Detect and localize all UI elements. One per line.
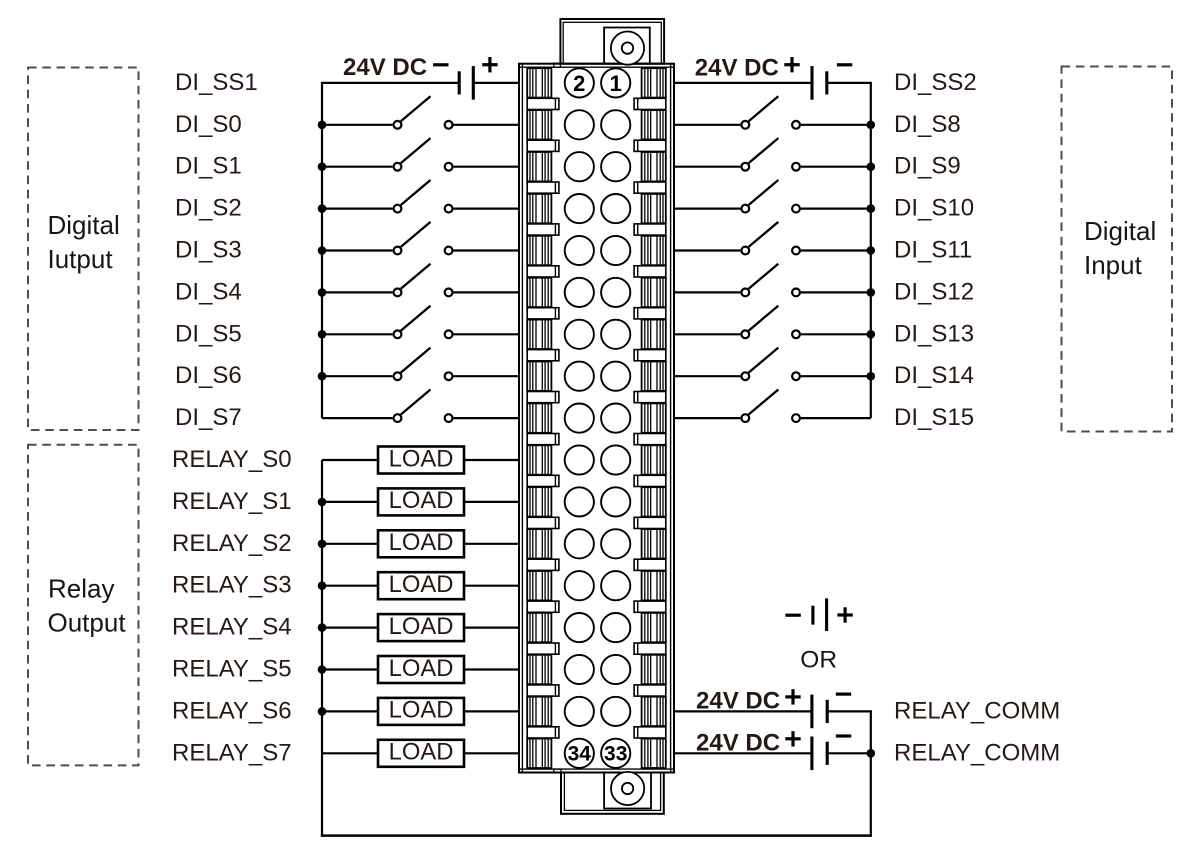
divider tab right, rows 9-10 <box>634 434 666 445</box>
battery 24V DC right (DI_SS2) <box>812 66 827 100</box>
wire RELAY_S0: bus to load <box>322 459 378 461</box>
svg-text:OR: OR <box>800 647 837 674</box>
contact comb right, row 16 <box>642 697 666 726</box>
switch DI_S5 <box>394 306 453 338</box>
terminal pin circle row 10 right <box>601 445 630 474</box>
terminal pin circle row 12 left <box>565 529 594 558</box>
contact comb left, row 12 <box>527 529 551 558</box>
terminal 33 (pin circle with number) <box>601 739 630 768</box>
wire DI_S3: bus to switch <box>322 249 393 251</box>
battery 24V DC (RELAY_COMM 1) <box>812 695 827 729</box>
divider tab left, rows 7-8 <box>527 350 559 361</box>
contact comb right, row 3 <box>642 152 666 181</box>
plus sign (top right battery) <box>784 57 799 72</box>
wire RELAY_COMM 1: battery to right vertical <box>827 710 872 712</box>
wire DI_SS2: battery to bus corner <box>827 82 872 84</box>
junction dot RELAY_S3 on relay bus <box>318 581 327 590</box>
contact comb left, row 9 <box>527 403 551 432</box>
wire DI_S10: terminal block to switch <box>674 208 740 210</box>
label Digital Iutput (left box title) <box>48 210 120 274</box>
divider tab left, rows 8-9 <box>527 392 559 403</box>
terminal pin circle row 12 right <box>601 529 630 558</box>
svg-text:LOAD: LOAD <box>389 571 454 598</box>
divider tab left, rows 5-6 <box>527 266 559 277</box>
terminal 2 (pin circle with number) <box>565 68 594 97</box>
contact comb left, row 13 <box>527 571 551 600</box>
wire DI_S9: switch to bus <box>801 166 871 168</box>
svg-text:24V DC: 24V DC <box>695 55 779 82</box>
plus sign (RELAY_COMM 1 battery) <box>785 689 800 704</box>
junction dot RELAY_S1 on relay bus <box>318 498 327 507</box>
load resistor box RELAY_S4 <box>378 613 464 641</box>
svg-text:LOAD: LOAD <box>389 655 454 682</box>
top cap washer circle <box>611 31 644 64</box>
terminal pin circle row 16 right <box>601 697 630 726</box>
contact comb right, row 6 <box>642 278 666 307</box>
divider tab right, rows 16-17 <box>634 727 666 738</box>
terminal pin circle row 6 right <box>601 278 630 307</box>
svg-text:DI_S1: DI_S1 <box>175 153 242 180</box>
wire: relay bus vertical down to bottom wire <box>321 460 323 836</box>
wire RELAY_S6: bus to load <box>322 710 378 712</box>
wire DI_S15: terminal block to switch <box>674 417 740 419</box>
terminal pin circle row 4 left <box>565 194 594 223</box>
minus sign (RELAY_COMM 2 battery) <box>836 734 851 737</box>
battery 24V DC (RELAY_COMM 2) <box>812 737 827 771</box>
contact comb left, row 14 <box>527 613 551 642</box>
terminal pin circle row 11 right <box>601 487 630 516</box>
svg-text:LOAD: LOAD <box>389 739 454 766</box>
dashed box: Digital Input group (left) <box>28 68 139 431</box>
divider tab left, rows 2-3 <box>527 140 559 151</box>
switch DI_S4 <box>394 264 453 297</box>
contact comb left, row 1 <box>527 68 551 97</box>
svg-text:RELAY_S0: RELAY_S0 <box>172 446 292 473</box>
svg-text:LOAD: LOAD <box>389 487 454 514</box>
load resistor box RELAY_S6 <box>378 697 464 725</box>
terminal pin circle row 13 right <box>601 571 630 600</box>
contact comb left, row 17 <box>527 739 551 768</box>
contact comb left, row 8 <box>527 362 551 391</box>
switch DI_S13 <box>741 306 800 338</box>
switch DI_S6 <box>394 348 453 381</box>
svg-text:RELAY_COMM: RELAY_COMM <box>894 697 1060 724</box>
terminal pin circle row 3 right <box>601 152 630 181</box>
wire RELAY_S4: load to terminal block <box>464 626 519 628</box>
contact comb right, row 10 <box>642 445 666 474</box>
wire DI_S13: switch to bus <box>801 333 871 335</box>
divider tab left, rows 15-16 <box>527 685 559 696</box>
wire DI_S4: switch to terminal block <box>454 291 520 293</box>
junction dot DI_S3 on left bus <box>318 246 327 255</box>
junction dot RELAY_S2 on relay bus <box>318 540 327 549</box>
divider tab right, rows 13-14 <box>634 601 666 612</box>
load resistor box RELAY_S5 <box>378 655 464 683</box>
wire: right DI bus vertical <box>870 83 872 418</box>
svg-text:RELAY_S7: RELAY_S7 <box>172 739 292 766</box>
junction dot DI_S12 on right bus <box>867 288 876 297</box>
junction dot DI_S9 on right bus <box>867 162 876 171</box>
label Relay Output (box title) <box>48 574 127 638</box>
contact comb right, row 4 <box>642 194 666 223</box>
divider tab right, rows 4-5 <box>634 224 666 235</box>
terminal pin circle row 14 left <box>565 613 594 642</box>
terminal pin circle row 5 right <box>601 236 630 265</box>
wire RELAY_S5: load to terminal block <box>464 668 519 670</box>
svg-text:RELAY_S6: RELAY_S6 <box>172 697 292 724</box>
divider tab right, rows 1-2 <box>634 98 666 109</box>
contact comb right, row 15 <box>642 655 666 684</box>
svg-text:24V DC: 24V DC <box>696 729 780 756</box>
svg-text:RELAY_S3: RELAY_S3 <box>172 572 292 599</box>
contact comb left, row 7 <box>527 320 551 349</box>
svg-text:33: 33 <box>604 743 627 766</box>
svg-text:DI_S0: DI_S0 <box>175 111 242 138</box>
svg-text:RELAY_COMM: RELAY_COMM <box>894 739 1060 766</box>
plus sign (top left battery) <box>482 57 497 72</box>
divider tab left, rows 12-13 <box>527 559 559 570</box>
svg-text:2: 2 <box>573 71 585 96</box>
bottom cap washer circle <box>611 772 644 805</box>
wire DI_S2: switch to terminal block <box>454 208 520 210</box>
wire DI_SS1: battery to terminal block <box>473 82 519 84</box>
svg-text:24V DC: 24V DC <box>696 687 780 714</box>
wire DI_S4: bus to switch <box>322 291 393 293</box>
svg-text:DI_S5: DI_S5 <box>175 320 242 347</box>
wire RELAY_S7: bus to load <box>322 752 378 754</box>
junction dot DI_S5 on left bus <box>318 330 327 339</box>
svg-text:DI_S13: DI_S13 <box>894 320 974 347</box>
wire DI_SS2: terminal block to battery <box>674 82 812 84</box>
wire: right vertical RELAY_COMM down to bottom wire <box>870 711 872 835</box>
wire: left DI bus vertical <box>321 83 323 418</box>
contact comb left, row 2 <box>527 110 551 139</box>
wire DI_S9: terminal block to switch <box>674 166 740 168</box>
junction dot DI_S10 on right bus <box>867 204 876 213</box>
switch DI_S1 <box>394 138 453 171</box>
svg-text:DI_S10: DI_S10 <box>894 195 974 222</box>
svg-text:DI_S9: DI_S9 <box>894 153 961 180</box>
divider tab right, rows 3-4 <box>634 182 666 193</box>
wire DI_S13: terminal block to switch <box>674 333 740 335</box>
divider tab right, rows 12-13 <box>634 559 666 570</box>
svg-text:DI_S12: DI_S12 <box>894 278 974 305</box>
svg-text:DI_S15: DI_S15 <box>894 404 974 431</box>
terminal pin circle row 7 left <box>565 320 594 349</box>
terminal pin circle row 2 right <box>601 110 630 139</box>
switch DI_S3 <box>394 222 453 255</box>
terminal pin circle row 2 left <box>565 110 594 139</box>
wire: bottom return wire <box>321 834 872 837</box>
ledge at top cap left <box>554 63 561 67</box>
svg-text:RELAY_S2: RELAY_S2 <box>172 530 292 557</box>
switch DI_S7 <box>394 390 453 423</box>
svg-text:Input: Input <box>1084 250 1143 280</box>
terminal pin circle row 9 right <box>601 404 630 433</box>
svg-text:24V DC: 24V DC <box>343 54 427 81</box>
divider tab left, rows 3-4 <box>527 182 559 193</box>
svg-text:Relay: Relay <box>48 574 114 604</box>
divider tab left, rows 16-17 <box>527 727 559 738</box>
junction dot RELAY_S6 on relay bus <box>318 707 327 716</box>
wire RELAY_S3: bus to load <box>322 585 378 587</box>
terminal 34 (pin circle with number) <box>565 739 594 768</box>
contact comb right, row 14 <box>642 613 666 642</box>
junction dot DI_S8 on right bus <box>867 121 876 130</box>
wire RELAY_S3: load to terminal block <box>464 585 519 587</box>
svg-text:DI_S4: DI_S4 <box>175 278 242 305</box>
wire DI_S0: bus to switch <box>322 124 393 126</box>
minus sign (top left battery) <box>433 63 448 66</box>
wire RELAY_S2: bus to load <box>322 543 378 545</box>
svg-text:LOAD: LOAD <box>389 445 454 472</box>
contact comb left, row 3 <box>527 152 551 181</box>
wire DI_S6: switch to terminal block <box>454 375 520 377</box>
wire DI_S12: terminal block to switch <box>674 291 740 293</box>
contact comb left, row 10 <box>527 445 551 474</box>
load resistor box RELAY_S2 <box>378 529 464 557</box>
svg-text:DI_S2: DI_S2 <box>175 195 242 222</box>
contact comb right, row 2 <box>642 110 666 139</box>
wire DI_S5: bus to switch <box>322 333 393 335</box>
wire RELAY_COMM 2: terminal block to battery <box>674 752 812 754</box>
junction dot RELAY_S5 on relay bus <box>318 665 327 674</box>
switch DI_S14 <box>741 348 800 381</box>
wire DI_S12: switch to bus <box>801 291 871 293</box>
wire DI_S6: bus to switch <box>322 375 393 377</box>
contact comb right, row 17 <box>642 739 666 768</box>
divider tab right, rows 7-8 <box>634 350 666 361</box>
load resistor box RELAY_S7 <box>378 739 464 767</box>
svg-text:Iutput: Iutput <box>48 244 114 274</box>
divider tab left, rows 14-15 <box>527 643 559 654</box>
svg-text:Digital: Digital <box>48 210 120 240</box>
wire RELAY_S6: load to terminal block <box>464 710 519 712</box>
switch DI_S11 <box>741 222 800 255</box>
terminal pin circle row 9 left <box>565 404 594 433</box>
svg-text:DI_S6: DI_S6 <box>175 362 242 389</box>
wire DI_S11: switch to bus <box>801 249 871 251</box>
switch DI_S15 <box>741 390 800 423</box>
divider tab right, rows 11-12 <box>634 517 666 528</box>
svg-text:1: 1 <box>610 71 622 96</box>
divider tab right, rows 10-11 <box>634 475 666 486</box>
contact comb right, row 9 <box>642 403 666 432</box>
svg-text:DI_SS1: DI_SS1 <box>175 69 258 96</box>
wire DI_S3: switch to terminal block <box>454 249 520 251</box>
contact comb left, row 16 <box>527 697 551 726</box>
wire DI_S0: switch to terminal block <box>454 124 520 126</box>
svg-text:LOAD: LOAD <box>389 529 454 556</box>
wire DI_S7: switch to terminal block <box>454 417 520 419</box>
divider tab left, rows 10-11 <box>527 475 559 486</box>
divider tab right, rows 2-3 <box>634 140 666 151</box>
junction dot DI_S14 on right bus <box>867 372 876 381</box>
svg-text:34: 34 <box>568 743 592 766</box>
dashed box: Digital Input group (right) <box>1062 67 1173 432</box>
load resistor box RELAY_S0 <box>378 445 464 473</box>
label Digital Input (right box title) <box>1084 216 1156 280</box>
terminal pin circle row 4 right <box>601 194 630 223</box>
svg-text:Output: Output <box>48 608 127 638</box>
wire RELAY_S2: load to terminal block <box>464 543 519 545</box>
contact comb left, row 15 <box>527 655 551 684</box>
terminal block top mounting cap <box>560 19 664 64</box>
svg-text:RELAY_S5: RELAY_S5 <box>172 656 292 683</box>
contact comb right, row 8 <box>642 362 666 391</box>
terminal pin circle row 7 right <box>601 320 630 349</box>
switch DI_S12 <box>741 264 800 297</box>
wire RELAY_S5: bus to load <box>322 668 378 670</box>
switch DI_S0 <box>394 96 453 129</box>
junction dot DI_S1 on left bus <box>318 162 327 171</box>
switch DI_S8 <box>741 96 800 129</box>
terminal pin circle row 11 left <box>565 487 594 516</box>
load resistor box RELAY_S3 <box>378 571 464 599</box>
switch DI_S2 <box>394 180 453 213</box>
terminal pin circle row 6 left <box>565 278 594 307</box>
wire RELAY_COMM 2: battery to right vertical <box>827 752 872 754</box>
wire DI_S8: switch to bus <box>801 124 871 126</box>
minus sign (floating battery) <box>785 614 800 617</box>
svg-text:DI_S8: DI_S8 <box>894 111 961 138</box>
terminal pin circle row 8 right <box>601 362 630 391</box>
junction dot DI_S4 on left bus <box>318 288 327 297</box>
svg-text:LOAD: LOAD <box>389 697 454 724</box>
wire DI_S1: switch to terminal block <box>454 166 520 168</box>
svg-text:Digital: Digital <box>1084 216 1156 246</box>
contact comb right, row 1 <box>642 68 666 97</box>
contact comb right, row 12 <box>642 529 666 558</box>
load resistor box RELAY_S1 <box>378 487 464 515</box>
contact comb left, row 6 <box>527 278 551 307</box>
terminal pin circle row 16 left <box>565 697 594 726</box>
wire RELAY_S4: bus to load <box>322 626 378 628</box>
dashed box: Relay Output group (left) <box>28 445 139 766</box>
contact comb left, row 11 <box>527 487 551 516</box>
wire DI_SS1 row: bus to battery <box>321 82 459 84</box>
divider tab right, rows 14-15 <box>634 643 666 654</box>
terminal pin circle row 5 left <box>565 236 594 265</box>
terminal block body outline <box>519 64 674 773</box>
junction dot DI_S6 on left bus <box>318 372 327 381</box>
wire DI_S14: switch to bus <box>801 375 871 377</box>
wire RELAY_COMM 1: terminal block to battery <box>674 710 812 712</box>
divider tab left, rows 13-14 <box>527 601 559 612</box>
plus sign (floating battery) <box>837 607 852 622</box>
wire RELAY_S1: load to terminal block <box>464 501 519 503</box>
junction dot RELAY_COMM on right vertical <box>867 749 876 758</box>
contact comb right, row 5 <box>642 236 666 265</box>
svg-text:DI_S3: DI_S3 <box>175 237 242 264</box>
divider tab left, rows 6-7 <box>527 308 559 319</box>
divider tab right, rows 5-6 <box>634 266 666 277</box>
svg-text:LOAD: LOAD <box>389 613 454 640</box>
terminal block bottom mounting cap <box>561 773 664 814</box>
terminal 1 (pin circle with number) <box>601 68 630 97</box>
divider tab left, rows 1-2 <box>527 98 559 109</box>
wire DI_S5: switch to terminal block <box>454 333 520 335</box>
contact comb right, row 11 <box>642 487 666 516</box>
wire DI_S7: bus to switch <box>322 417 393 419</box>
svg-text:RELAY_S1: RELAY_S1 <box>172 488 292 515</box>
battery 24V DC left (DI_SS1) <box>459 66 473 100</box>
ledge at bottom cap left <box>554 769 561 773</box>
wire RELAY_S1: bus to load <box>322 501 378 503</box>
terminal pin circle row 14 right <box>601 613 630 642</box>
wire DI_S11: terminal block to switch <box>674 249 740 251</box>
svg-text:DI_S11: DI_S11 <box>894 237 972 264</box>
wire DI_S15: switch to bus <box>801 417 871 419</box>
terminal pin circle row 8 left <box>565 362 594 391</box>
contact comb right, row 13 <box>642 571 666 600</box>
divider tab right, rows 8-9 <box>634 392 666 403</box>
junction dot DI_S0 on left bus <box>318 121 327 130</box>
terminal pin circle row 15 left <box>565 655 594 684</box>
svg-text:DI_S14: DI_S14 <box>894 362 974 389</box>
terminal pin circle row 3 left <box>565 152 594 181</box>
wire DI_S14: terminal block to switch <box>674 375 740 377</box>
wire RELAY_S7: load to terminal block <box>464 752 519 754</box>
divider tab left, rows 9-10 <box>527 434 559 445</box>
wire DI_S1: bus to switch <box>322 166 393 168</box>
divider tab left, rows 11-12 <box>527 517 559 528</box>
svg-text:RELAY_S4: RELAY_S4 <box>172 614 292 641</box>
svg-text:DI_S7: DI_S7 <box>175 404 242 431</box>
contact comb left, row 4 <box>527 194 551 223</box>
wire DI_S2: bus to switch <box>322 208 393 210</box>
divider tab right, rows 15-16 <box>634 685 666 696</box>
svg-text:DI_SS2: DI_SS2 <box>894 69 977 96</box>
junction dot DI_S13 on right bus <box>867 330 876 339</box>
switch DI_S9 <box>741 138 800 171</box>
divider tab left, rows 4-5 <box>527 224 559 235</box>
contact comb right, row 7 <box>642 320 666 349</box>
switch DI_S10 <box>741 180 800 213</box>
terminal pin circle row 13 left <box>565 571 594 600</box>
terminal pin circle row 15 right <box>601 655 630 684</box>
wire RELAY_S0: load to terminal block <box>464 459 519 461</box>
minus sign (top right battery) <box>837 63 852 66</box>
terminal pin circle row 10 left <box>565 445 594 474</box>
minus sign (RELAY_COMM 1 battery) <box>836 692 851 695</box>
wire DI_S8: terminal block to switch <box>674 124 740 126</box>
plus sign (RELAY_COMM 2 battery) <box>785 731 800 746</box>
contact comb left, row 5 <box>527 236 551 265</box>
junction dot DI_S2 on left bus <box>318 204 327 213</box>
alternative battery symbol (floating, OR option) <box>813 598 827 631</box>
junction dot RELAY_S4 on relay bus <box>318 623 327 632</box>
junction dot DI_S11 on right bus <box>867 246 876 255</box>
divider tab right, rows 6-7 <box>634 308 666 319</box>
wire DI_S10: switch to bus <box>801 208 871 210</box>
